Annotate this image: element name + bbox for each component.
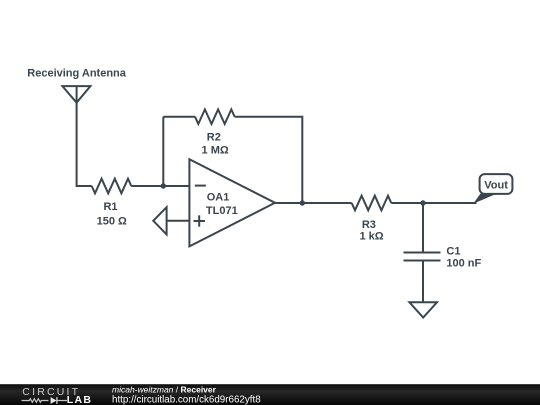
svg-text:Receiving Antenna: Receiving Antenna <box>27 67 126 79</box>
ground below C1 <box>409 302 437 317</box>
op-amp OA1 <box>189 159 275 246</box>
svg-text:C1: C1 <box>446 246 460 258</box>
capacitor C1 <box>404 253 441 261</box>
svg-text:1 MΩ: 1 MΩ <box>202 144 229 156</box>
op-amp plus sign <box>194 215 206 226</box>
svg-text:LAB: LAB <box>67 394 92 405</box>
wire: feedback top right segment and right vertical <box>235 117 303 203</box>
resistor R2 <box>195 109 235 124</box>
wire: R3 to Vout <box>391 202 476 204</box>
svg-text:R2: R2 <box>207 132 221 144</box>
CircuitLab logo schematic squiggle <box>22 397 68 404</box>
ground at non-inverting input <box>153 207 166 234</box>
wire: op-amp output <box>275 202 352 204</box>
wire: feedback left vertical <box>162 117 164 186</box>
svg-text:micah-weitzman / Receiver: micah-weitzman / Receiver <box>112 385 217 395</box>
wire: antenna stem down <box>77 118 92 186</box>
antenna symbol <box>62 86 90 118</box>
node junction at inverting input <box>161 183 166 188</box>
resistor R3 <box>352 196 392 211</box>
svg-text:OA1: OA1 <box>207 192 230 204</box>
wire: feedback top left segment <box>163 116 195 118</box>
wire: C1 to ground <box>422 261 424 303</box>
svg-text:R1: R1 <box>103 201 117 213</box>
wire: ground to plus input <box>167 220 190 222</box>
svg-text:Vout: Vout <box>484 180 508 192</box>
resistor R1 <box>92 179 132 194</box>
svg-text:R3: R3 <box>362 219 376 231</box>
svg-text:150 Ω: 150 Ω <box>97 216 127 228</box>
svg-text:http://circuitlab.com/ck6d9r66: http://circuitlab.com/ck6d9r662yft8 <box>112 394 261 405</box>
wire: R1 to op-amp inverting input <box>131 185 189 187</box>
net flag Vout <box>473 174 512 204</box>
node: output junction <box>300 200 305 205</box>
CircuitLab logo diode <box>51 397 57 404</box>
op-amp minus sign <box>195 185 206 187</box>
svg-text:1 kΩ: 1 kΩ <box>359 231 383 243</box>
node: RC junction <box>420 200 425 205</box>
wire: node down to C1 <box>422 203 424 253</box>
svg-text:TL071: TL071 <box>206 205 238 217</box>
svg-text:100 nF: 100 nF <box>446 257 481 269</box>
